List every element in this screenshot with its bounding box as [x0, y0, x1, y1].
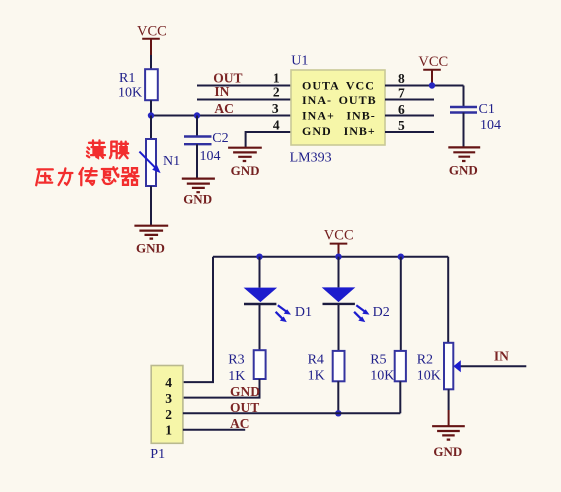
LED D2	[322, 287, 390, 322]
node junction at C2	[194, 112, 200, 118]
wire VCC to R1	[150, 55, 152, 69]
ground GND (below N1)	[134, 226, 168, 256]
capacitor C1	[450, 86, 501, 148]
svg-text:VCC: VCC	[418, 54, 448, 70]
svg-text:3: 3	[165, 391, 172, 406]
svg-text:INB-: INB-	[346, 109, 375, 123]
wire bus to R2	[447, 257, 449, 343]
svg-text:GND: GND	[449, 163, 478, 178]
svg-text:4: 4	[165, 375, 172, 390]
char 力	[59, 168, 73, 185]
svg-text:3: 3	[272, 101, 279, 116]
wire IC pin 5	[385, 131, 434, 133]
ground GND (IC pin 4)	[228, 148, 262, 178]
svg-text:GND: GND	[302, 124, 332, 138]
svg-text:INA+: INA+	[302, 109, 335, 123]
node junction D1 column	[256, 254, 262, 260]
node junction R4/OUT	[335, 410, 341, 416]
wire IC pin 4 to ground	[246, 132, 291, 148]
ground GND (below C1)	[448, 147, 480, 177]
svg-text:C2: C2	[212, 131, 228, 146]
wire D2 to R4	[338, 304, 340, 351]
potentiometer R2	[417, 343, 527, 390]
svg-text:D1: D1	[295, 305, 312, 320]
svg-text:R5: R5	[370, 353, 386, 368]
svg-text:VCC: VCC	[137, 24, 167, 40]
power VCC (bottom)	[324, 228, 354, 257]
svg-text:7: 7	[398, 86, 405, 101]
svg-text:10K: 10K	[370, 369, 394, 384]
char 薄	[87, 140, 105, 157]
LED D1	[244, 288, 312, 323]
svg-text:8: 8	[398, 71, 405, 86]
svg-text:1K: 1K	[228, 369, 245, 384]
svg-text:R1: R1	[119, 71, 135, 86]
wire stub to GND (red)	[448, 410, 450, 426]
wire IC pin 8 to VCC and C1	[385, 85, 464, 87]
svg-text:VCC: VCC	[346, 79, 375, 93]
resistor R3	[228, 350, 265, 384]
wire R5 bottom to OUT net	[399, 381, 401, 413]
char 传	[79, 168, 96, 185]
svg-text:104: 104	[200, 149, 221, 164]
svg-text:GND: GND	[230, 384, 260, 399]
wire bus to D1	[259, 257, 261, 288]
resistor R1	[118, 69, 158, 100]
svg-text:R3: R3	[228, 353, 244, 368]
svg-text:N1: N1	[163, 154, 180, 169]
wire OUT net stub	[197, 85, 291, 87]
svg-text:INA-: INA-	[302, 93, 332, 107]
svg-text:OUTA: OUTA	[302, 79, 340, 93]
svg-text:104: 104	[480, 118, 501, 133]
wire IC pin 7	[385, 99, 434, 101]
wire bus to R5	[400, 257, 402, 351]
svg-text:4: 4	[273, 118, 280, 133]
svg-text:IN: IN	[214, 84, 229, 99]
resistor R4	[308, 351, 345, 384]
wire left column to P1 pin 4	[183, 257, 213, 382]
sensor N1	[139, 139, 180, 186]
op-amp U1 LM393	[290, 54, 385, 166]
wire IN net stub	[197, 99, 291, 101]
svg-text:LM393: LM393	[290, 151, 332, 166]
power VCC (right)	[418, 54, 448, 86]
connector P1	[150, 366, 183, 463]
svg-text:GND: GND	[433, 444, 462, 459]
power VCC (top left)	[137, 24, 167, 56]
svg-text:AC: AC	[214, 101, 234, 116]
svg-text:2: 2	[273, 84, 280, 99]
char 膜	[110, 142, 128, 159]
wire P1 pin 1 AC stub	[183, 429, 245, 431]
char 压	[36, 169, 53, 185]
svg-text:D2: D2	[373, 305, 390, 320]
node junction pin8/VCC	[429, 82, 435, 88]
svg-text:GND: GND	[136, 241, 165, 256]
svg-text:1K: 1K	[308, 369, 325, 384]
wire R2 to ground	[448, 389, 450, 410]
node junction D2/VCC column	[335, 254, 341, 260]
svg-text:C1: C1	[479, 102, 495, 117]
svg-text:R2: R2	[417, 353, 433, 368]
svg-text:GND: GND	[231, 163, 260, 178]
wire node to N1	[150, 116, 152, 140]
wire bus to D2	[338, 257, 340, 288]
wire N1 to ground	[150, 186, 152, 226]
wire R3 to P1 pin 3	[183, 379, 260, 398]
node junction R5 column	[398, 254, 404, 260]
svg-text:5: 5	[398, 118, 405, 133]
ground GND (below C2)	[182, 179, 215, 207]
wire AC net (node to IC pin 3)	[151, 115, 291, 117]
char 器	[122, 168, 139, 185]
svg-text:10K: 10K	[417, 369, 441, 384]
ground GND (below R2)	[432, 426, 465, 459]
svg-text:2: 2	[165, 407, 172, 422]
annotation 薄膜 压力传感器 (red)	[36, 140, 138, 185]
node junction at R1/N1	[148, 112, 154, 118]
svg-text:IN: IN	[494, 349, 509, 364]
svg-text:P1: P1	[150, 447, 165, 462]
wire IC pin 6	[385, 115, 434, 117]
svg-text:INB+: INB+	[344, 124, 376, 138]
wire R4 to OUT net	[337, 381, 339, 413]
svg-text:OUTB: OUTB	[339, 93, 377, 107]
svg-text:1: 1	[165, 423, 172, 438]
svg-text:1: 1	[273, 71, 280, 86]
wire P1 pin 2 OUT net	[183, 412, 400, 414]
char 感	[102, 167, 119, 184]
wire D1 to R3	[259, 304, 261, 350]
wire R1 bottom to node	[150, 100, 152, 115]
resistor R5	[370, 351, 406, 384]
wire VCC bus (bottom)	[213, 256, 448, 258]
svg-text:R4: R4	[308, 353, 324, 368]
svg-text:VCC: VCC	[324, 228, 354, 244]
capacitor C2	[184, 116, 229, 179]
svg-text:GND: GND	[183, 192, 212, 207]
svg-text:U1: U1	[291, 54, 308, 69]
svg-text:10K: 10K	[118, 86, 142, 101]
